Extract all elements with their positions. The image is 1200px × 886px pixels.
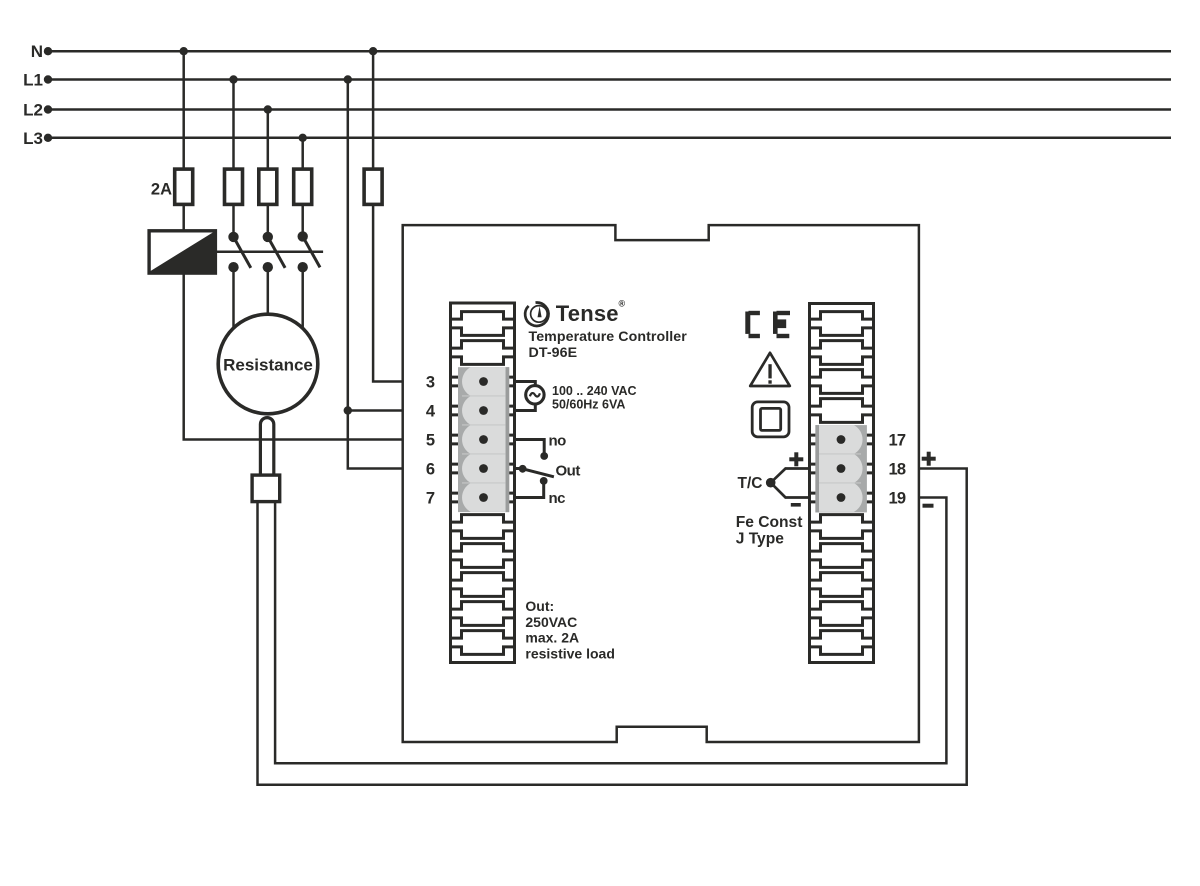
resistance heater circle bbox=[218, 314, 318, 414]
terminal 6 clamp bbox=[462, 454, 506, 483]
fuse F2 bbox=[225, 169, 243, 204]
left strip cell 1 bbox=[451, 312, 515, 336]
relay blade bbox=[523, 469, 554, 477]
terminal 19 screw dot bbox=[837, 493, 846, 502]
wire terminal 6 to common bbox=[515, 467, 521, 470]
terminal 3 clamp bbox=[462, 367, 506, 396]
junction on N at supply branch bbox=[369, 47, 377, 55]
left strip cell 7 bbox=[451, 486, 515, 510]
terminal separator below 4 bbox=[462, 424, 506, 426]
svg-text:7: 7 bbox=[426, 489, 435, 507]
svg-text:L1: L1 bbox=[23, 71, 43, 90]
svg-text:nc: nc bbox=[549, 490, 566, 507]
svg-text:50/60Hz 6VA: 50/60Hz 6VA bbox=[552, 398, 625, 412]
wire terminal 3 to AC symbol bbox=[515, 382, 536, 411]
relay common dot bbox=[519, 465, 527, 473]
svg-text:Resistance: Resistance bbox=[223, 355, 313, 374]
fuse F4 bbox=[294, 169, 312, 204]
left strip cell 3 bbox=[451, 370, 515, 394]
junction on N at coil branch bbox=[180, 47, 188, 55]
wire fuse F5 to terminal 3 bbox=[373, 204, 403, 381]
right strip cell 3 bbox=[810, 370, 874, 394]
node L3 terminal dot bbox=[44, 134, 52, 142]
wire contact S2 to resistance bbox=[267, 267, 270, 315]
right strip cell 5 bbox=[810, 428, 874, 452]
wire N bus bbox=[48, 50, 1171, 53]
junction on L2 at fuse branch bbox=[264, 105, 272, 113]
Tense logo gauge icon bbox=[525, 303, 548, 326]
wire fuse F1 to contactor coil bbox=[182, 204, 185, 231]
contact S2 lower dot bbox=[263, 262, 273, 272]
right strip cell 4 bbox=[810, 399, 874, 423]
terminal separator below 5 bbox=[462, 453, 506, 455]
terminal separator below 6 bbox=[462, 482, 506, 484]
wire N to fuse F1 bbox=[182, 51, 185, 170]
wire fuse F2 to contact bbox=[232, 204, 235, 237]
svg-text:17: 17 bbox=[889, 431, 906, 449]
wire contactor coil to terminal 5 bbox=[184, 273, 403, 439]
wire L1 bus bbox=[48, 78, 1171, 81]
terminal 4 screw dot bbox=[479, 406, 488, 415]
left strip cell 5 bbox=[451, 428, 515, 452]
svg-text:L3: L3 bbox=[23, 129, 43, 148]
fuse F1 bbox=[175, 169, 193, 204]
svg-text:2A: 2A bbox=[151, 181, 172, 199]
contact S3 blade bbox=[303, 236, 320, 267]
right strip cell 10 bbox=[810, 573, 874, 597]
right strip cell 11 bbox=[810, 602, 874, 626]
right strip cell 2 bbox=[810, 341, 874, 365]
relay nc contact dot bbox=[540, 477, 548, 485]
left terminal block background bbox=[458, 367, 509, 512]
left strip cell 8 bbox=[451, 515, 515, 539]
node L2 terminal dot bbox=[44, 105, 52, 113]
junction on L3 at fuse branch bbox=[299, 134, 307, 142]
wire N to fuse F5 bbox=[372, 51, 375, 170]
contact S1 lower dot bbox=[228, 262, 238, 272]
junction L1 branch at terminal 4 bbox=[344, 406, 352, 414]
contact S3 upper dot bbox=[298, 231, 308, 241]
terminal 18 screw dot bbox=[837, 464, 846, 473]
terminal 4 clamp bbox=[462, 396, 506, 425]
right strip cell 8 bbox=[810, 515, 874, 539]
fuse F3 bbox=[259, 169, 277, 204]
svg-text:®: ® bbox=[619, 299, 626, 309]
svg-text:6: 6 bbox=[426, 460, 435, 478]
svg-text:resistive load: resistive load bbox=[525, 645, 615, 661]
thermocouple junction dot bbox=[766, 478, 776, 488]
right strip cell 9 bbox=[810, 544, 874, 568]
warning triangle icon bbox=[750, 353, 790, 386]
AC source symbol bbox=[526, 386, 544, 404]
terminal 18 clamp bbox=[819, 454, 863, 483]
contactor coil K1 bbox=[149, 231, 215, 273]
terminal separator below 17 bbox=[819, 453, 861, 455]
wire L3 to fuse F4 bbox=[301, 138, 304, 170]
contact S1 upper dot bbox=[228, 232, 238, 242]
svg-text:Tense: Tense bbox=[556, 301, 619, 326]
svg-text:N: N bbox=[31, 42, 43, 61]
wire T/C to terminal 19 bbox=[771, 483, 810, 498]
terminal 17 screw dot bbox=[837, 435, 846, 444]
svg-text:DT-96E: DT-96E bbox=[529, 345, 578, 361]
terminal 5 screw dot bbox=[479, 435, 488, 444]
terminal 3 screw dot bbox=[479, 377, 488, 386]
svg-text:100 .. 240 VAC: 100 .. 240 VAC bbox=[552, 384, 637, 398]
wire fuse F4 to contact bbox=[301, 204, 304, 237]
wire fuse F3 to contact bbox=[267, 204, 270, 237]
svg-text:Fe Const: Fe Const bbox=[736, 514, 803, 531]
svg-text:T/C: T/C bbox=[738, 475, 763, 492]
svg-text:250VAC: 250VAC bbox=[525, 614, 577, 630]
wire T/C minus lead bbox=[275, 498, 946, 764]
right terminal strip body bbox=[810, 304, 874, 663]
right strip cell 12 bbox=[810, 631, 874, 655]
node minus polarity (inside) bbox=[791, 503, 801, 507]
terminal 7 clamp bbox=[462, 483, 506, 512]
wire T/C plus lead bbox=[258, 469, 967, 785]
wire terminal 7 to nc contact bbox=[515, 484, 544, 498]
svg-text:Out:: Out: bbox=[525, 598, 554, 614]
wire L2 bus bbox=[48, 108, 1171, 111]
svg-text:19: 19 bbox=[889, 489, 906, 507]
right strip cell 7 bbox=[810, 486, 874, 510]
terminal separator below 18 bbox=[819, 482, 861, 484]
left strip cell 6 bbox=[451, 457, 515, 481]
contact S2 upper dot bbox=[263, 232, 273, 242]
contact S2 blade bbox=[268, 237, 285, 268]
class II insulation icon bbox=[752, 402, 789, 437]
terminal 6 screw dot bbox=[479, 464, 488, 473]
terminal 7 screw dot bbox=[479, 493, 488, 502]
junction on L1 at fuse branch bbox=[229, 75, 237, 83]
probe connector block bbox=[252, 475, 280, 502]
left strip cell 9 bbox=[451, 544, 515, 568]
svg-text:5: 5 bbox=[426, 431, 435, 449]
terminal 5 clamp bbox=[462, 425, 506, 454]
wire T/C to terminal 18 bbox=[771, 469, 810, 483]
svg-text:18: 18 bbox=[889, 460, 906, 478]
right terminal block background bbox=[815, 425, 867, 512]
terminal 19 clamp bbox=[819, 483, 863, 512]
svg-text:4: 4 bbox=[426, 402, 436, 420]
node minus polarity (outside) bbox=[923, 504, 934, 508]
right strip cell 1 bbox=[810, 312, 874, 336]
svg-text:Temperature Controller: Temperature Controller bbox=[529, 329, 688, 345]
wire terminal 5 to no contact bbox=[515, 440, 545, 453]
wire L1 to terminal 4 bbox=[348, 80, 403, 411]
svg-text:Out: Out bbox=[556, 462, 581, 479]
left strip cell 12 bbox=[451, 631, 515, 655]
svg-text:L2: L2 bbox=[23, 101, 43, 120]
wire L2 to fuse F3 bbox=[267, 110, 270, 171]
contact S1 blade bbox=[234, 237, 251, 268]
left strip cell 4 bbox=[451, 399, 515, 423]
left strip cell 10 bbox=[451, 573, 515, 597]
wire contact S1 to resistance bbox=[232, 267, 235, 329]
svg-text:J Type: J Type bbox=[736, 531, 785, 548]
left strip cell 2 bbox=[451, 341, 515, 365]
fuse F5 bbox=[364, 169, 382, 204]
left strip cell 11 bbox=[451, 602, 515, 626]
junction on L1 at supply branch bbox=[344, 75, 352, 83]
thermocouple probe sheath bbox=[260, 418, 273, 476]
relay no contact dot bbox=[540, 452, 548, 460]
terminal 17 clamp bbox=[819, 425, 863, 454]
contactor actuator bar bbox=[215, 251, 323, 254]
node N terminal dot bbox=[44, 47, 52, 55]
CE mark bbox=[745, 311, 790, 338]
terminal separator below 3 bbox=[462, 395, 506, 397]
wire contact S3 to resistance bbox=[301, 267, 304, 329]
svg-text:no: no bbox=[549, 432, 567, 449]
left terminal block edge shade bbox=[506, 367, 510, 512]
contact S3 lower dot bbox=[298, 262, 308, 272]
controller DT-96E case outline bbox=[403, 225, 919, 742]
wire L1 to terminal 6 bbox=[348, 411, 403, 469]
left terminal strip body bbox=[451, 303, 515, 663]
node L1 terminal dot bbox=[44, 75, 52, 83]
svg-text:max. 2A: max. 2A bbox=[525, 630, 579, 646]
right strip cell 6 bbox=[810, 457, 874, 481]
right terminal block edge shade bbox=[815, 425, 819, 512]
node plus polarity (inside) bbox=[789, 452, 803, 466]
node plus polarity (outside) bbox=[922, 452, 936, 466]
svg-text:3: 3 bbox=[426, 373, 435, 391]
wire L3 bus bbox=[48, 137, 1171, 140]
wire L1 to fuse F2 bbox=[232, 80, 235, 171]
